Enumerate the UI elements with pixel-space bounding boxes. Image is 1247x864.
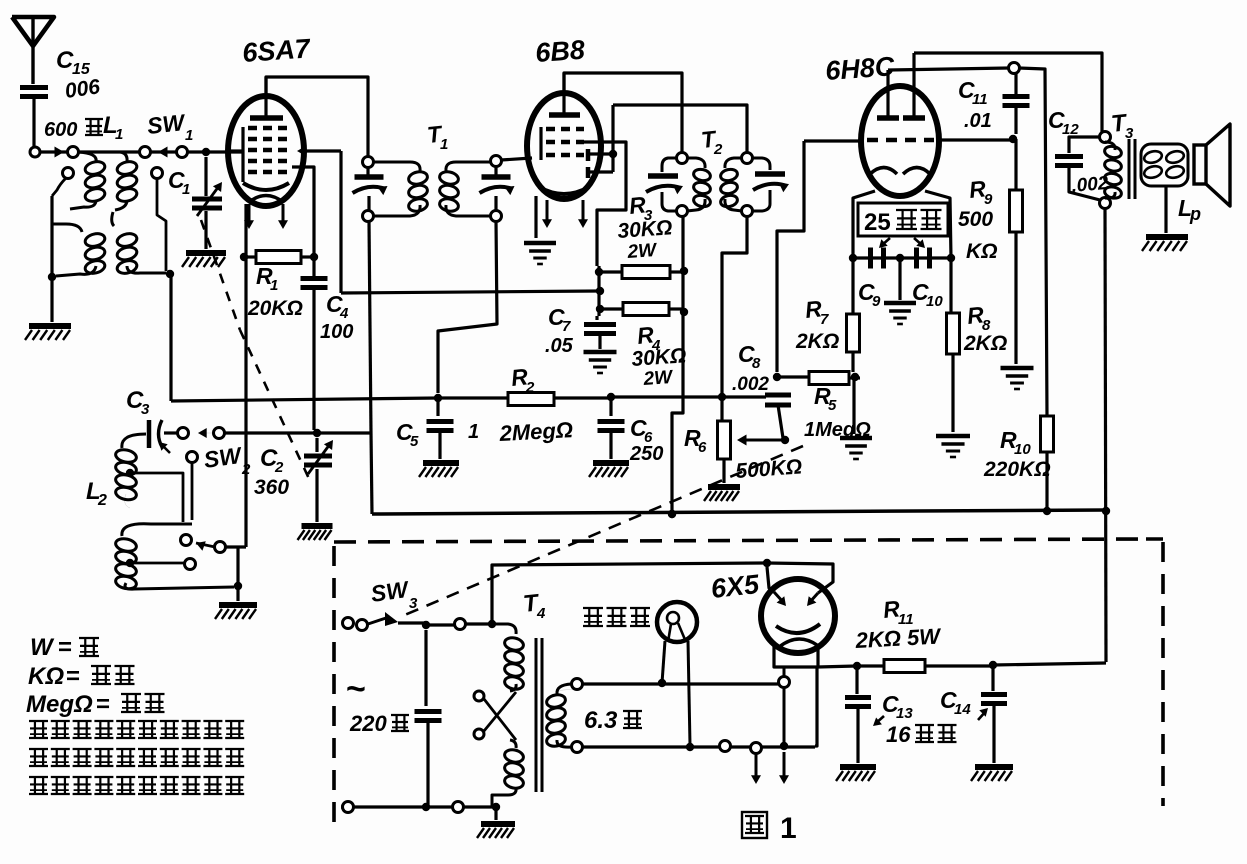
label tube 6B8 xyxy=(534,35,586,68)
svg-text:=: = xyxy=(96,691,110,718)
svg-text:10: 10 xyxy=(1014,441,1031,458)
6H8C plate left xyxy=(877,70,899,118)
svg-text:100: 100 xyxy=(320,321,353,343)
6X5 heater arc xyxy=(779,639,817,647)
capacitor C6 xyxy=(598,397,625,459)
node T4 pri top xyxy=(488,620,496,628)
capacitor C3 xyxy=(149,420,170,453)
terminal T2 right top xyxy=(742,153,753,164)
wire SW1 row xyxy=(78,150,242,153)
label mains AC xyxy=(346,670,366,708)
label R8 xyxy=(966,301,991,334)
wire T1 pri cap xyxy=(368,167,369,211)
resistor R4 xyxy=(600,303,683,316)
label C6 value xyxy=(629,443,663,465)
ground R7R5 xyxy=(840,438,872,459)
terminal T2 right bottom xyxy=(742,206,753,217)
wire antenna node xyxy=(30,147,70,158)
node R5 right xyxy=(851,373,859,381)
label C3 xyxy=(126,387,150,418)
label 220V xyxy=(349,711,409,736)
capacitor C11 xyxy=(1003,73,1030,134)
svg-text:1MegΩ: 1MegΩ xyxy=(804,419,871,441)
wire AVC bus xyxy=(171,398,438,401)
label 600V xyxy=(44,119,103,141)
label C4 value xyxy=(320,321,353,343)
ground R9 xyxy=(1001,368,1034,389)
svg-text:14: 14 xyxy=(954,701,971,718)
wire AVC to R6 xyxy=(611,395,722,398)
node R1 right xyxy=(310,253,318,261)
label C2 value xyxy=(254,476,289,499)
resistor R11 xyxy=(884,660,991,673)
tube 6H8C envelope xyxy=(861,86,939,196)
label box 25uF xyxy=(858,203,948,236)
wire 6H8C cathode left xyxy=(853,191,875,314)
wire ant-coil left xyxy=(48,196,56,281)
wire R7 to ground xyxy=(852,377,855,434)
legend W xyxy=(30,634,99,661)
svg-text:220KΩ: 220KΩ xyxy=(983,458,1051,481)
svg-text:360: 360 xyxy=(254,476,289,499)
coil L2 upper xyxy=(114,434,146,508)
coil T1 primary xyxy=(374,162,429,216)
label C8 xyxy=(738,341,761,372)
label T2 xyxy=(700,125,723,158)
caption figure 1 xyxy=(742,812,797,845)
label R2 xyxy=(510,363,535,396)
svg-text:16: 16 xyxy=(886,722,911,747)
wire B+ rail xyxy=(372,510,1106,514)
label C9 xyxy=(858,279,881,310)
terminal T2 left bottom xyxy=(677,206,688,217)
coil L1 upper xyxy=(115,152,138,210)
R6 wiper xyxy=(737,435,789,446)
heater takeoff arrows xyxy=(751,752,789,784)
coil T4 secondary loops xyxy=(545,684,571,748)
ground C7 xyxy=(584,352,617,373)
trimmer T1 secondary xyxy=(480,166,515,211)
svg-text:10: 10 xyxy=(926,293,943,310)
terminal T1 sec bottom xyxy=(491,211,502,222)
resistor R1 xyxy=(244,251,314,264)
wire screen bus xyxy=(341,291,599,293)
label R7 xyxy=(804,295,829,328)
wire 6B8 diode1 to T2 sec xyxy=(590,105,747,172)
svg-text:2: 2 xyxy=(241,461,251,478)
coil T4 primary upper xyxy=(492,624,525,691)
6H8C grids xyxy=(867,138,934,143)
label 6.3V xyxy=(584,707,642,734)
wire mains top xyxy=(426,619,492,630)
coil T3 primary xyxy=(1104,142,1123,200)
dashed border left xyxy=(332,546,336,827)
label R6 value xyxy=(735,455,803,483)
terminal T1 pri top xyxy=(363,157,374,168)
gang dashes R6-SW3 xyxy=(400,446,803,617)
label R7 value xyxy=(795,330,839,353)
label T3 xyxy=(1110,109,1134,142)
6B8 grids xyxy=(546,129,584,155)
6X5 plate leads xyxy=(767,563,833,606)
terminal T1 sec top xyxy=(491,156,502,167)
svg-text:15: 15 xyxy=(72,61,91,78)
ground R6 xyxy=(704,487,740,501)
capacitor C12 xyxy=(1055,137,1100,200)
svg-text:SW: SW xyxy=(202,442,245,473)
label tube 6H8C xyxy=(824,51,895,86)
node R3 left xyxy=(595,268,603,276)
node C14 top xyxy=(989,661,997,669)
wire heater line 1 xyxy=(583,682,778,685)
node C6 xyxy=(607,393,615,401)
L2 tap upper xyxy=(126,469,183,522)
svg-text:MegΩ: MegΩ xyxy=(26,691,93,718)
svg-text:2KΩ: 2KΩ xyxy=(795,330,839,353)
wire T1 sec bottom to AVC xyxy=(438,221,497,393)
wire osc line to rail xyxy=(371,433,372,514)
label R3 xyxy=(628,191,653,224)
svg-text:2: 2 xyxy=(713,141,723,158)
svg-text:2: 2 xyxy=(97,492,107,509)
label L2 xyxy=(86,478,107,509)
node R3 right xyxy=(680,267,688,275)
wire 6X5 output xyxy=(818,666,884,667)
svg-text:KΩ: KΩ xyxy=(966,240,998,263)
6X5 cathode lead xyxy=(779,667,790,746)
capacitor C13 xyxy=(845,666,871,763)
label R11 xyxy=(882,595,914,628)
label Lp xyxy=(1178,195,1201,224)
label R6 xyxy=(684,425,707,456)
ground C1 xyxy=(182,211,226,267)
svg-text:.01: .01 xyxy=(964,110,992,132)
svg-text:6: 6 xyxy=(698,439,707,456)
coil L2 lower xyxy=(114,537,234,591)
gang dashes C1-C2 xyxy=(201,220,311,483)
svg-text:6H8C: 6H8C xyxy=(824,51,895,86)
resistor R9 xyxy=(1010,139,1023,364)
label R5 value xyxy=(804,419,871,441)
node lamp xyxy=(658,679,666,687)
coil T2 left xyxy=(687,158,711,211)
node R4 left xyxy=(596,305,604,313)
svg-text:2: 2 xyxy=(274,459,284,476)
speaker Lp xyxy=(1194,124,1230,206)
node rail R10 xyxy=(1043,507,1051,515)
ground C2 xyxy=(298,469,333,540)
wire 6B8 cathode ground xyxy=(534,196,537,238)
label R1 xyxy=(256,263,278,294)
label SW1 xyxy=(146,109,194,144)
svg-text:1: 1 xyxy=(115,126,123,143)
label R1 value xyxy=(247,297,303,320)
node 6X5 plates xyxy=(763,559,771,567)
svg-text:~: ~ xyxy=(346,670,366,708)
terminal L1 top xyxy=(140,147,151,158)
wire AVC to C8 xyxy=(722,395,766,398)
terminal T4 sec bottom xyxy=(572,742,583,753)
svg-text:4: 4 xyxy=(536,605,546,622)
svg-text:20KΩ: 20KΩ xyxy=(247,297,303,320)
resistor R7 xyxy=(847,314,860,372)
svg-text:5: 5 xyxy=(828,397,837,414)
label C4 xyxy=(326,291,349,322)
node C2 top xyxy=(313,429,321,437)
svg-text:2MegΩ: 2MegΩ xyxy=(498,417,574,446)
node R1 left xyxy=(240,253,248,261)
label C11 xyxy=(958,77,988,108)
capacitor C5 xyxy=(427,398,454,459)
svg-text:SW: SW xyxy=(369,576,412,607)
switch SW3 xyxy=(343,612,427,631)
label T1 xyxy=(426,120,449,153)
svg-text:500KΩ: 500KΩ xyxy=(735,455,803,483)
svg-text:7: 7 xyxy=(562,318,571,335)
legend line5 xyxy=(29,749,244,766)
label SW2 xyxy=(202,442,251,478)
svg-text:2KΩ: 2KΩ xyxy=(963,332,1007,355)
label tube 6SA7 xyxy=(241,33,312,68)
terminal ant-coil tap xyxy=(52,168,74,197)
switch SW2 lower pole xyxy=(187,452,198,521)
label C15 xyxy=(56,47,91,78)
L2 tap lower xyxy=(126,559,196,570)
svg-text:2: 2 xyxy=(525,379,535,396)
wire T3 sec ground xyxy=(1164,186,1167,233)
svg-text:1: 1 xyxy=(780,812,797,845)
node C9 left xyxy=(849,254,857,262)
tube 6X5 envelope xyxy=(761,579,835,653)
svg-text:220: 220 xyxy=(349,711,387,736)
coil L1 lower xyxy=(112,212,166,275)
wire heater line 2 xyxy=(583,741,815,754)
resistor R6 (volume) xyxy=(718,397,731,483)
ground C13 xyxy=(836,767,876,781)
6SA7 plate bar xyxy=(250,77,283,118)
label R2 value xyxy=(498,417,574,446)
svg-text:1: 1 xyxy=(270,277,278,294)
capacitor C1 (variable) xyxy=(192,157,222,216)
label tube 6X5 xyxy=(709,569,761,604)
svg-text:4: 4 xyxy=(339,305,349,322)
node rail right xyxy=(1102,507,1110,515)
label C13 xyxy=(882,691,913,722)
ground C9C10 xyxy=(884,303,916,324)
trimmer T2 left xyxy=(646,158,683,211)
svg-text:1: 1 xyxy=(468,421,479,443)
svg-text:8: 8 xyxy=(752,355,761,372)
label R9 xyxy=(968,175,993,208)
label C7 xyxy=(548,304,571,335)
svg-text:9: 9 xyxy=(984,191,993,208)
wire C9C10 xyxy=(853,256,951,259)
label C5 xyxy=(396,419,419,450)
wire SW2 to ground xyxy=(234,547,242,601)
svg-text:2KΩ 5W: 2KΩ 5W xyxy=(854,623,943,653)
label C10 xyxy=(912,279,943,310)
coil T3 secondary xyxy=(1141,144,1188,186)
ground T4 xyxy=(477,807,515,838)
svg-text:3: 3 xyxy=(141,401,150,418)
svg-text:30KΩ: 30KΩ xyxy=(617,216,673,243)
wire 6B8 plate to T2 xyxy=(564,73,682,152)
svg-text:3: 3 xyxy=(409,595,418,612)
svg-text:006: 006 xyxy=(63,75,101,103)
coil T1 secondary xyxy=(438,162,490,216)
wire R3R4 link xyxy=(597,266,600,316)
wire mains bottom xyxy=(341,802,500,813)
lamp leads xyxy=(662,641,690,745)
label R4 xyxy=(636,321,661,354)
resistor R5 xyxy=(777,372,860,385)
terminal C11 top xyxy=(1009,63,1020,74)
svg-text:2W: 2W xyxy=(642,367,675,390)
6H8C plate right xyxy=(903,53,925,118)
label R3 value xyxy=(617,216,673,243)
wire ground bus left xyxy=(244,257,247,547)
svg-text:6X5: 6X5 xyxy=(709,569,761,604)
wire AVC to R2 xyxy=(438,396,508,399)
coil T4 secondary xyxy=(555,690,577,697)
capacitor C4 xyxy=(301,250,328,430)
tube 6B8 envelope xyxy=(527,93,601,199)
label 16uF xyxy=(886,722,957,747)
label SW3 xyxy=(369,576,418,612)
node R4 right xyxy=(680,308,688,316)
svg-text:1: 1 xyxy=(185,127,193,144)
label arrows 25uF xyxy=(879,238,925,248)
capacitor C7 xyxy=(584,316,616,349)
ground 6B8 cathode xyxy=(524,243,556,264)
dashed border right xyxy=(1161,542,1165,806)
label C11 value xyxy=(964,110,992,132)
svg-text:9: 9 xyxy=(872,293,881,310)
ground R8 xyxy=(936,436,970,457)
wire T1 sec to 6B8 grid xyxy=(501,158,532,160)
capacitor C8 xyxy=(765,395,791,438)
capacitor C2 (tuning) xyxy=(304,438,333,474)
node C11 grid xyxy=(1009,135,1017,143)
svg-text:SW: SW xyxy=(146,109,188,139)
wire 6H8C plate1 top xyxy=(888,68,1009,70)
ground antenna coil xyxy=(25,281,71,340)
label R9 value2 xyxy=(966,240,998,263)
label 006 xyxy=(63,75,101,103)
label T4 xyxy=(522,589,546,622)
node C8 top xyxy=(773,373,781,381)
label R10 value xyxy=(983,458,1051,481)
tube 6SA7 envelope xyxy=(228,96,304,206)
resistor R3 xyxy=(599,266,683,279)
6SA7 grid1 bracket xyxy=(231,127,243,182)
ground speaker xyxy=(1142,237,1188,251)
node C9C10 right xyxy=(947,254,955,262)
6X5 socket box xyxy=(774,646,818,667)
T4 core xyxy=(536,638,542,792)
svg-text:250: 250 xyxy=(629,443,663,465)
capacitor C9 xyxy=(871,248,884,269)
coil T4 primary lower xyxy=(492,740,525,807)
label C6 xyxy=(630,415,653,446)
label R4 value xyxy=(631,344,687,371)
6B8 plate bar xyxy=(549,73,580,115)
svg-text:6B8: 6B8 xyxy=(534,35,586,68)
6SA7 heater pins xyxy=(244,204,288,229)
terminal T1 pri bottom xyxy=(363,211,374,222)
wire 6SA7 osc grid xyxy=(292,167,314,250)
label R3 watts xyxy=(626,240,659,263)
svg-text:=: = xyxy=(66,663,80,690)
wire output to rail xyxy=(993,511,1106,665)
legend Megohm xyxy=(26,691,165,718)
svg-text:=: = xyxy=(58,634,72,661)
T4 crossover xyxy=(474,691,516,740)
svg-text:1: 1 xyxy=(440,136,448,153)
label R10 xyxy=(1000,427,1031,458)
wire L1 bottom to AVC bus xyxy=(169,274,172,401)
label 16uF arrows xyxy=(873,708,988,726)
6SA7 cathode arc xyxy=(243,183,289,202)
svg-text:p: p xyxy=(1189,204,1201,224)
node mains top xyxy=(422,621,430,629)
6X5 cathode arc xyxy=(776,624,820,633)
6SA7 grids xyxy=(248,128,291,172)
wire heater to 6X5 xyxy=(815,667,817,746)
ground C6 xyxy=(589,463,629,477)
label lamp xyxy=(583,608,650,626)
svg-text:.002: .002 xyxy=(732,374,769,395)
svg-text:13: 13 xyxy=(896,705,913,722)
indicator lamp xyxy=(657,602,697,642)
switch SW2 wiper xyxy=(181,535,247,553)
svg-text:1: 1 xyxy=(182,181,190,198)
dashed border top xyxy=(334,539,1146,542)
node C13 top xyxy=(853,662,861,670)
svg-text:11: 11 xyxy=(972,91,988,108)
wire HV line xyxy=(492,563,764,624)
ground L2 xyxy=(215,605,257,619)
wire T2 pri bottom chain xyxy=(672,216,683,512)
label R8 value xyxy=(963,332,1007,355)
label C8 value xyxy=(732,374,769,395)
svg-text:6SA7: 6SA7 xyxy=(241,33,312,68)
terminal T3 bottom xyxy=(1100,198,1111,209)
terminal L1 tap xyxy=(152,168,167,272)
node rail T2 chain xyxy=(668,510,676,518)
wire L2 lower top xyxy=(122,524,192,536)
antenna xyxy=(12,17,54,84)
terminal T3 top xyxy=(1100,132,1111,143)
svg-text:.05: .05 xyxy=(545,335,574,357)
wire 6H8C grid line xyxy=(777,140,1013,372)
legend Kohm xyxy=(28,663,135,690)
capacitor C15 xyxy=(20,88,48,153)
capacitor C14 xyxy=(981,665,1007,763)
svg-text:2W: 2W xyxy=(626,240,659,263)
label R9 value1 xyxy=(958,208,993,231)
wire C3 right xyxy=(164,431,178,434)
6H8C cathode arcs xyxy=(870,168,930,175)
label C14 xyxy=(940,687,971,718)
wire plate1 to R10 line xyxy=(1019,68,1047,416)
antenna coil primary xyxy=(70,152,106,209)
terminal T4 sec top xyxy=(572,679,583,690)
svg-text:W: W xyxy=(30,634,55,661)
label L1 xyxy=(103,112,123,143)
resistor R8 xyxy=(947,258,960,432)
svg-text:25: 25 xyxy=(864,209,891,236)
